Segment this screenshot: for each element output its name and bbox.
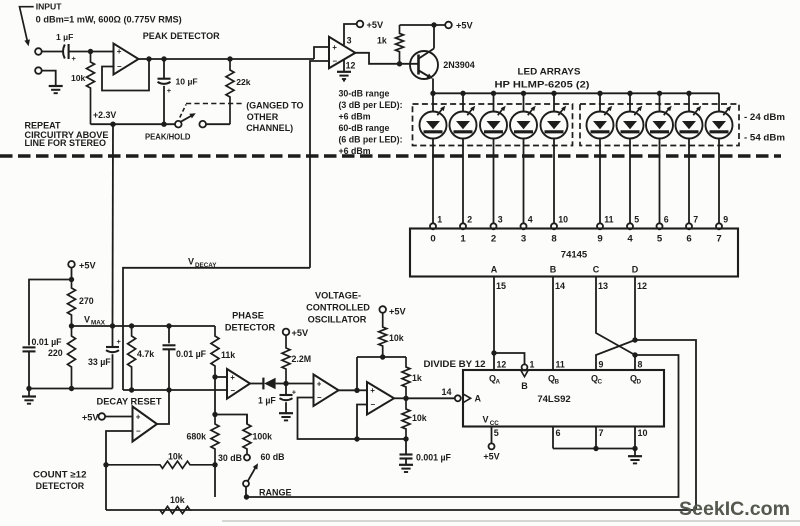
svg-text:B: B [550, 265, 557, 275]
wire [91, 51, 114, 53]
wire D crossover [634, 277, 636, 341]
svg-text:HP HLMP-6205 (2): HP HLMP-6205 (2) [495, 80, 590, 90]
node anode junction [430, 91, 435, 96]
svg-text:7: 7 [716, 234, 721, 245]
label GANGED TO OTHER CHANNEL [246, 100, 303, 133]
label input D [632, 265, 639, 275]
label output 5 [657, 234, 663, 245]
label QC [591, 374, 602, 386]
op-amp U7 vco integrator [314, 375, 339, 407]
node count12 [103, 462, 108, 467]
node QA junction [491, 350, 496, 355]
resistor R13 10k top [379, 313, 404, 357]
pin 9 label [599, 359, 604, 369]
label output 6 [686, 234, 691, 245]
wire gnd bus [553, 448, 635, 450]
svg-text:10 µF: 10 µF [176, 76, 198, 86]
svg-text:SeekIC.com: SeekIC.com [679, 498, 790, 520]
node fb1 [354, 436, 359, 441]
wire output [250, 383, 263, 385]
wire to VCO [286, 383, 314, 385]
node A junction [88, 49, 93, 54]
svg-text:+: + [370, 386, 375, 395]
wire base [400, 63, 419, 65]
svg-text:10k: 10k [71, 73, 86, 83]
capacitor C5 0.01 uF [163, 326, 207, 390]
resistor R9 680k [187, 415, 220, 465]
wire B to QB [552, 277, 554, 371]
svg-text:(3 dB per LED):: (3 dB per LED): [339, 100, 403, 110]
svg-text:0.001 µF: 0.001 µF [416, 452, 452, 462]
wire decay output [157, 390, 169, 424]
label QB [548, 374, 559, 386]
capacitor C6 1 uF [258, 384, 297, 413]
label 60 dB [261, 452, 285, 462]
resistor R4 270 [68, 280, 94, 327]
svg-text:1 µF: 1 µF [56, 32, 73, 42]
svg-text:4: 4 [528, 215, 533, 225]
svg-text:2: 2 [467, 215, 472, 225]
op-amp U2 comparator [329, 37, 355, 68]
node 22k tap [227, 56, 232, 61]
pin 8 label [638, 359, 643, 369]
LED D1 [420, 93, 447, 223]
capacitor C1 1 uF [56, 32, 77, 63]
op-amp U6 phase detector [227, 369, 250, 399]
label VCC [483, 415, 500, 427]
wire [42, 51, 63, 53]
LED D5 [541, 93, 568, 223]
label COUNT >12 DETECTOR [33, 469, 87, 491]
capacitor C3 0.01 uF [23, 337, 63, 388]
terminal pin 11 [597, 215, 614, 230]
svg-text:11k: 11k [221, 350, 235, 360]
wire main output line [149, 58, 314, 60]
node anode junction [491, 91, 496, 96]
label 30 dB [218, 453, 242, 463]
wire to comparator + input [314, 47, 329, 59]
svg-text:A: A [495, 379, 500, 386]
LED D2 [450, 93, 477, 223]
svg-text:5: 5 [657, 234, 663, 245]
terminal 60dB contact [244, 455, 250, 461]
svg-text:0: 0 [430, 234, 435, 245]
svg-text:+: + [117, 47, 122, 56]
svg-text:3: 3 [498, 215, 503, 225]
resistor R14 1k [402, 357, 422, 398]
label 30 dB range block [339, 88, 403, 156]
node 0.01 tap [166, 323, 171, 328]
svg-text:PHASE: PHASE [232, 311, 264, 321]
svg-text:+5V: +5V [367, 20, 384, 30]
svg-text:LINE FOR STEREO: LINE FOR STEREO [25, 138, 107, 148]
op-amp U1 peak detector [114, 44, 139, 75]
svg-text:C: C [597, 379, 602, 386]
transistor Q1 2N3904 [410, 49, 475, 80]
node VCO input [283, 381, 288, 386]
svg-text:(GANGED TO: (GANGED TO [246, 100, 303, 110]
resistor R10 100k [243, 415, 272, 455]
svg-text:DECAY RESET: DECAY RESET [97, 397, 163, 407]
pin 5 +5V [483, 427, 499, 462]
svg-text:+5V: +5V [483, 451, 499, 461]
svg-text:C: C [593, 265, 600, 275]
ground [399, 465, 413, 472]
svg-text:9: 9 [597, 234, 602, 245]
op-amp U8 vco comparator [367, 382, 394, 415]
svg-text:3: 3 [347, 35, 352, 45]
node anode junction [521, 91, 526, 96]
svg-text:V: V [84, 315, 90, 325]
svg-text:–: – [333, 56, 338, 65]
resistor R3 1k [377, 25, 404, 64]
svg-text:B: B [521, 381, 528, 391]
terminal pin 9 [716, 215, 728, 230]
wire op-amp output [139, 58, 150, 60]
svg-text:0.01 µF: 0.01 µF [32, 337, 63, 347]
LED D10 [706, 93, 733, 223]
node anode junction [460, 91, 465, 96]
node peak det output [146, 56, 151, 61]
wire ground bus left [29, 388, 113, 390]
node QD feedback tap [632, 352, 637, 357]
svg-text:A: A [475, 394, 482, 404]
svg-text:11: 11 [556, 359, 565, 369]
svg-text:DIVIDE BY 12: DIVIDE BY 12 [424, 359, 486, 369]
svg-text:+5V: +5V [456, 21, 473, 31]
svg-text:2.2M: 2.2M [292, 354, 312, 364]
label RANGE [259, 487, 292, 497]
svg-text:+2.3V: +2.3V [93, 110, 116, 120]
svg-text:3: 3 [521, 234, 526, 245]
pin 12 label [637, 281, 647, 291]
wire 680k to range line [214, 465, 216, 497]
svg-text:–: – [136, 427, 141, 436]
wire comparator - to Vdecay [310, 61, 329, 268]
wire vco2 inverting [357, 405, 367, 440]
svg-text:A: A [491, 265, 498, 275]
wire anode rail [433, 92, 719, 94]
pin 14 label [555, 281, 565, 291]
svg-text:CONTROLLED: CONTROLLED [306, 303, 370, 313]
label B [521, 381, 528, 391]
svg-text:DETECTOR: DETECTOR [225, 323, 276, 333]
capacitor C7 0.001 uF [400, 439, 452, 464]
node 10uF tap [161, 56, 166, 61]
svg-text:(6 dB per LED):: (6 dB per LED): [339, 134, 403, 144]
svg-text:5: 5 [634, 215, 639, 225]
svg-text:10k: 10k [170, 495, 185, 505]
wire QD stub [634, 355, 636, 370]
wire gnd stub [28, 389, 30, 396]
label input B [550, 265, 557, 275]
label output 7 [716, 234, 721, 245]
svg-text:CHANNEL): CHANNEL) [246, 123, 293, 133]
node VMAX [69, 315, 106, 329]
svg-text:0 dBm=1 mW, 600Ω (0.775V RMS): 0 dBm=1 mW, 600Ω (0.775V RMS) [36, 14, 182, 24]
label output 3 [521, 234, 526, 245]
svg-text:+5V: +5V [292, 328, 309, 338]
node cap junction [403, 436, 408, 441]
svg-text:+6 dBm: +6 dBm [339, 111, 371, 121]
node QC feedback tap [632, 337, 637, 342]
svg-text:–: – [117, 62, 122, 71]
svg-text:9: 9 [599, 359, 604, 369]
node anode junction [551, 91, 556, 96]
svg-text:–: – [371, 400, 376, 409]
svg-text:V: V [483, 415, 489, 425]
power +5V terminal 2 [445, 21, 473, 31]
svg-text:6: 6 [686, 234, 691, 245]
node vco mid [354, 388, 359, 393]
resistor R6 4.7k [128, 326, 155, 390]
svg-text:2N3904: 2N3904 [443, 60, 475, 70]
svg-text:+: + [230, 373, 235, 382]
wire [42, 71, 56, 85]
switch SW1 peak/hold [175, 113, 230, 127]
svg-text:REPEAT: REPEAT [25, 120, 62, 130]
node 4.7k bottom [129, 387, 134, 392]
label output 4 [627, 234, 633, 245]
svg-text:220: 220 [48, 348, 63, 358]
svg-text:V: V [188, 257, 194, 267]
svg-text:15: 15 [496, 281, 506, 291]
wire VDECAY line [123, 268, 310, 390]
wire QA stub [493, 353, 495, 370]
node INPUT label and pointer arrow [20, 2, 63, 47]
svg-text:10k: 10k [389, 333, 404, 343]
svg-text:INPUT: INPUT [36, 2, 63, 12]
terminal pin 5 [627, 215, 639, 230]
node anode junction [597, 91, 602, 96]
power +5V terminal [357, 20, 384, 30]
power +5V terminal 4 [82, 413, 105, 423]
resistor R12 2.2M [282, 335, 311, 384]
svg-text:0.01 µF: 0.01 µF [176, 349, 207, 359]
power +5V terminal 6 [379, 306, 406, 316]
label output 1 [460, 234, 466, 245]
label output 8 [551, 234, 557, 245]
svg-text:10k: 10k [168, 451, 183, 461]
svg-text:680k: 680k [187, 431, 207, 441]
svg-text:D: D [632, 265, 639, 275]
wire [357, 389, 367, 391]
svg-text:+: + [167, 86, 172, 95]
svg-text:+5V: +5V [82, 413, 99, 423]
svg-text:–: – [231, 386, 236, 395]
label HP HLMP-6205 (2) [495, 80, 590, 90]
pin 15 label [496, 281, 506, 291]
terminal pin 1 [430, 215, 442, 230]
stereo separator dashed line [0, 154, 781, 157]
wire QC feedback loop [635, 340, 696, 510]
ground [22, 397, 36, 404]
svg-text:1: 1 [460, 234, 466, 245]
pin 1 B input circle [521, 364, 528, 376]
svg-text:OSCILLATOR: OSCILLATOR [308, 315, 367, 325]
node anode junction [657, 91, 662, 96]
wire decay bus [123, 389, 227, 391]
svg-text:14: 14 [442, 387, 452, 397]
LED D4 [510, 93, 537, 223]
resistor R8 10k [106, 451, 215, 468]
svg-text:33 µF: 33 µF [88, 357, 111, 367]
node bias top [69, 277, 74, 282]
resistor R15 10k low [402, 398, 427, 439]
label PEAK/HOLD [145, 132, 191, 142]
svg-text:14: 14 [555, 281, 565, 291]
terminal pin 3 [491, 215, 503, 230]
svg-text:12: 12 [346, 61, 356, 71]
svg-text:PEAK DETECTOR: PEAK DETECTOR [143, 31, 220, 41]
svg-text:+: + [72, 54, 77, 63]
svg-text:1k: 1k [412, 373, 422, 383]
terminal pin 7 [686, 215, 698, 230]
wire inverting input [106, 431, 133, 465]
wire vco out line [394, 397, 406, 399]
svg-text:RANGE: RANGE [259, 487, 292, 497]
svg-text:10: 10 [638, 428, 648, 438]
resistor R7 11k [211, 326, 235, 377]
label VDECAY [188, 257, 217, 269]
svg-text:6: 6 [556, 428, 561, 438]
svg-text:9: 9 [723, 215, 728, 225]
svg-text:PEAK/HOLD: PEAK/HOLD [145, 132, 191, 142]
svg-text:74LS92: 74LS92 [537, 394, 570, 405]
svg-text:7: 7 [693, 215, 698, 225]
resistor R5 220 [48, 326, 76, 389]
pin 10 stub [635, 427, 648, 449]
svg-text:+: + [136, 412, 141, 421]
pin 12 label [497, 359, 507, 369]
ground [628, 449, 642, 464]
pin 7 stub [596, 427, 604, 449]
svg-text:30-dB range: 30-dB range [339, 88, 390, 98]
wire +5V rail [400, 24, 446, 26]
label input C [593, 265, 600, 275]
node 680k top [212, 412, 217, 417]
node pin7 gnd [593, 446, 598, 451]
svg-text:+: + [292, 387, 297, 396]
label output 9 [597, 234, 602, 245]
svg-text:30 dB: 30 dB [218, 453, 242, 463]
pin 11 label [556, 359, 565, 369]
label pin 1 [530, 359, 535, 369]
label PHASE DETECTOR [225, 311, 276, 333]
node rail junction 1 [110, 122, 115, 127]
svg-text:60 dB: 60 dB [261, 452, 285, 462]
wire feedback loop [102, 59, 149, 91]
diode D11 [263, 378, 286, 390]
wire fb bus [357, 438, 406, 440]
label DECAY RESET [97, 397, 163, 407]
svg-text:1: 1 [437, 215, 442, 225]
label output 2 [491, 234, 496, 245]
op-amp U5 decay reset [133, 407, 158, 442]
svg-text:4.7k: 4.7k [137, 349, 154, 359]
svg-text:12: 12 [497, 359, 507, 369]
wire top node [357, 356, 406, 358]
ground [279, 413, 293, 420]
ground [337, 72, 351, 82]
svg-text:2: 2 [491, 234, 496, 245]
label output 0 [430, 234, 435, 245]
svg-text:- 24 dBm: - 24 dBm [744, 112, 785, 122]
node gnd junction [26, 386, 31, 391]
terminal pin 4 [521, 215, 533, 230]
resistor R11 10k [106, 465, 696, 514]
node collector rail [431, 22, 436, 27]
wire QD feedback loop [247, 355, 679, 497]
label input A [491, 265, 498, 275]
svg-text:D: D [636, 379, 641, 386]
wire pin3 to +5V [344, 24, 357, 45]
IC U3 74145 [410, 229, 738, 277]
resistor R1 10k [71, 52, 95, 125]
svg-text:COUNT ≥12: COUNT ≥12 [33, 469, 87, 479]
svg-text:6: 6 [664, 215, 669, 225]
svg-text:+: + [117, 337, 122, 346]
wire VMAX line [72, 325, 216, 327]
svg-text:12: 12 [637, 281, 647, 291]
node 1k bottom [397, 61, 402, 66]
svg-text:DETECTOR: DETECTOR [36, 481, 85, 491]
label VCO [306, 291, 370, 325]
svg-text:7: 7 [599, 428, 604, 438]
power +5V terminal 5 [283, 328, 309, 338]
svg-text:10k: 10k [412, 413, 427, 423]
pin 6 stub [553, 427, 561, 449]
IC U4 74LS92 [463, 370, 664, 427]
node rail junction 2 [161, 122, 166, 127]
terminal pin 2 [460, 215, 472, 230]
wire gnd stub [343, 60, 345, 71]
LED D9 [676, 93, 703, 223]
wire 11k continue [214, 377, 216, 415]
svg-text:8: 8 [551, 234, 557, 245]
input spec label [36, 14, 182, 24]
pin 3 label [347, 35, 352, 45]
wire vco1 feedback [298, 398, 358, 440]
svg-text:B: B [554, 379, 559, 386]
wire node riser [356, 357, 358, 390]
svg-text:22k: 22k [236, 77, 251, 87]
svg-text:LED ARRAYS: LED ARRAYS [518, 67, 581, 77]
svg-text:270: 270 [79, 296, 94, 306]
svg-text:13: 13 [598, 281, 608, 291]
node anode junction [627, 91, 632, 96]
wire comparator output [355, 53, 399, 64]
wire A to QA [493, 277, 495, 354]
label -54 dBm [744, 133, 785, 143]
node decay junction [166, 387, 171, 392]
wire ganged dashed link [180, 104, 244, 118]
watermark SeekIC.com [679, 498, 790, 520]
svg-text:74145: 74145 [561, 250, 588, 261]
input terminal [35, 48, 42, 55]
pin 13 label [598, 281, 608, 291]
node anode junction [686, 91, 691, 96]
capacitor C2 10 uF [158, 59, 198, 124]
node 4.7k tap [129, 323, 134, 328]
svg-text:11: 11 [604, 215, 613, 225]
svg-text:60-dB range: 60-dB range [339, 123, 390, 133]
pin 12 label [346, 61, 356, 71]
node 11k bottom [212, 374, 217, 379]
wire to pin B [494, 353, 525, 364]
node 680k bottom [212, 462, 217, 467]
svg-text:+5V: +5V [389, 307, 406, 317]
